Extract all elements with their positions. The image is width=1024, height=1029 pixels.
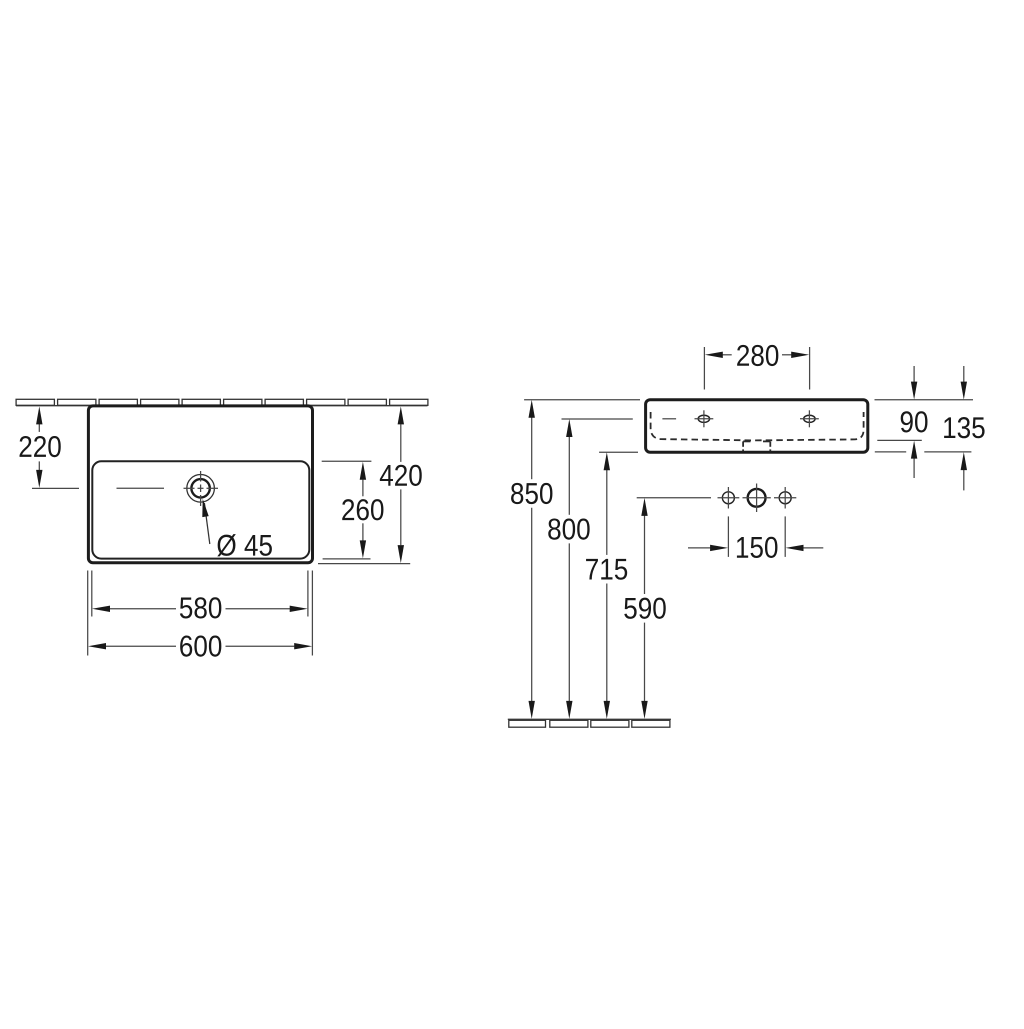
dimension 135 arrows and tails [963,366,965,490]
dimension 715 top extension line [599,451,638,453]
dimension 420 line [400,424,402,545]
dimension 420 text [380,465,422,486]
dimension 280 text [737,345,778,366]
drain hole outer circle [187,475,215,503]
dimension 420 bottom arrow [398,545,404,563]
dimension 150 line with outside arrows [688,547,823,549]
drain recess dashed notch left [743,441,750,451]
dimension 600 right arrow [294,643,312,649]
dimension 90 bottom extension line [877,439,922,441]
floor hatch boxes [509,720,670,727]
tap hole centre marks [662,410,818,427]
dimension 590 text [624,598,665,619]
dimension 220 top arrow [36,406,42,424]
dimension 90 text [901,411,928,432]
leader arrowhead [202,499,208,517]
dimension 150 extension lines [728,516,785,557]
dimension 580 left arrow [92,606,110,612]
basin outer outline (top view) [88,406,312,563]
drain hole inner circle [191,479,209,497]
dimension 280 left arrow [705,352,723,358]
basin inner bowl outline (top view) [92,461,309,558]
dimension 260 bottom arrow [360,540,366,558]
dimension 600 text [180,635,221,656]
basin interior dashed outline [651,412,864,440]
mounting holes extension line to left (590 top reference) [637,497,711,499]
dimension 220 extension line (drain level, left) [32,487,79,489]
drain recess dashed notch right [763,441,770,451]
dimension 850 top extension line [524,399,640,401]
drain centre line horizontal [117,487,219,489]
dimension 150 text [737,537,778,558]
dimension 800 text [548,518,589,539]
mounting hole centre circle [748,489,766,507]
dimension 90 arrows and tails [913,366,915,478]
label Ø 45 [217,534,272,556]
mounting hole right small circle [779,492,791,504]
dimension 600 left arrow [88,643,106,649]
dimension 715 line [606,470,608,702]
dimension 260 top arrow [360,462,366,480]
drain centre line vertical [200,471,202,506]
basin profile outline (front view) [646,400,868,452]
dimension 420 bottom extension line [318,563,410,565]
dimension 260 top extension line [322,460,372,462]
wall line (left view) [16,405,428,407]
dimension 420 top arrow [398,406,404,424]
dimension 260 bottom extension line [323,558,371,560]
dimension 600 line [106,645,295,647]
top extension line for 90/135 [875,399,974,401]
dimension 280 right arrow [791,352,809,358]
mounting holes centre marks [718,484,797,513]
bottom extension lines for 580/600 [88,571,313,656]
leader line to drain label [204,503,209,544]
dimension 260 line [362,480,364,541]
mounting hole left small circle [722,492,734,504]
dimension 220 text [20,436,61,457]
tap hole oval right [804,415,815,422]
tap hole oval left [698,415,709,422]
dimension 280 line [723,354,792,356]
dimension 580 line [110,608,290,610]
dimension 850 line [531,417,533,701]
dimension 715 text [586,559,627,580]
dimension 580 text [180,597,221,618]
dimension 800 line [568,437,570,702]
dimension 220 line [38,424,40,471]
dimension 135 text [944,417,984,438]
dimension 580 right arrow [290,606,308,612]
dimension 850 text [511,483,552,504]
dimension 800 top extension line [562,418,633,420]
floor line [508,718,671,720]
dimension 260 text [342,499,383,520]
dimension 280 extension lines [704,347,809,390]
dimension 135 bottom extension line [875,451,972,453]
wall hatch boxes (left view) [16,399,428,405]
dimension 590 line [644,515,646,701]
dimension 220 bottom arrow [36,470,42,488]
